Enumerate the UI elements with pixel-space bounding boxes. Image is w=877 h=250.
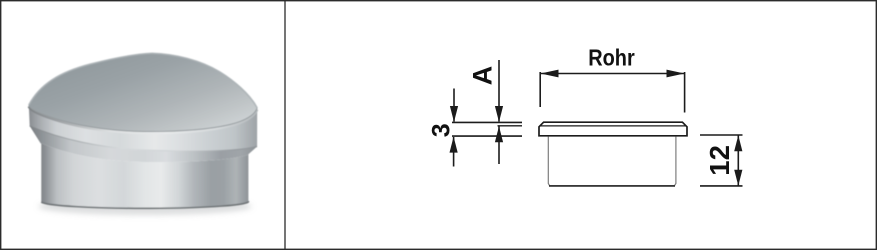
svg-text:Rohr: Rohr (588, 45, 635, 71)
svg-text:3: 3 (427, 123, 455, 137)
svg-text:12: 12 (704, 145, 735, 176)
svg-text:A: A (468, 66, 498, 86)
